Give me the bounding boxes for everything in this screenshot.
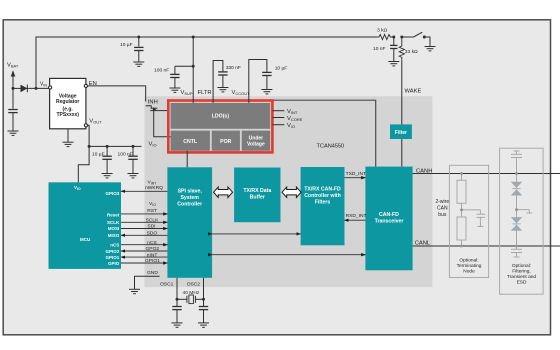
svg-text:10 µF: 10 µF [92, 152, 105, 158]
svg-text:MISO: MISO [108, 233, 120, 238]
svg-text:Buffer: Buffer [250, 195, 265, 201]
svg-text:2-wire: 2-wire [435, 199, 449, 205]
svg-text:CAN: CAN [437, 206, 448, 212]
svg-text:VOUT: VOUT [89, 119, 102, 125]
svg-text:WAKE: WAKE [405, 89, 422, 95]
svg-text:Terminating: Terminating [457, 263, 482, 269]
svg-text:bus: bus [438, 212, 447, 218]
svg-text:SPI slave,: SPI slave, [178, 188, 203, 194]
svg-text:GPIO2: GPIO2 [106, 249, 120, 254]
svg-text:TCAN4550: TCAN4550 [317, 144, 345, 150]
svg-text:FLTR: FLTR [198, 90, 212, 96]
svg-text:Controller with: Controller with [304, 193, 341, 199]
svg-text:GPIO1: GPIO1 [106, 255, 120, 260]
svg-text:CAN-FD: CAN-FD [379, 212, 399, 218]
svg-text:VCCOUT: VCCOUT [232, 90, 251, 96]
svg-text:RST: RST [147, 208, 157, 214]
svg-text:3 kΩ: 3 kΩ [377, 28, 388, 34]
svg-text:CNTL: CNTL [183, 139, 198, 145]
svg-text:10 µF: 10 µF [120, 42, 133, 48]
svg-text:MOSI: MOSI [108, 226, 120, 231]
svg-text:10 µF: 10 µF [275, 66, 288, 72]
svg-text:VSUP: VSUP [181, 90, 193, 96]
svg-text:GPIO3: GPIO3 [106, 191, 120, 196]
svg-text:TX/RX Data: TX/RX Data [243, 188, 271, 194]
svg-text:ESD: ESD [517, 280, 527, 286]
svg-text:SCLK: SCLK [107, 220, 120, 225]
svg-text:Regulator: Regulator [56, 99, 79, 105]
svg-text:10 nF: 10 nF [373, 46, 386, 52]
svg-text:VBAT: VBAT [7, 63, 19, 69]
svg-text:100 nF: 100 nF [154, 68, 169, 74]
svg-text:100 nF: 100 nF [118, 152, 133, 158]
svg-text:Optional:: Optional: [459, 258, 478, 264]
svg-text:Reset: Reset [107, 212, 120, 217]
svg-text:VIO: VIO [74, 185, 81, 191]
svg-text:Filters: Filters [315, 200, 331, 206]
svg-text:Node: Node [463, 269, 475, 275]
svg-text:Optional:: Optional: [512, 263, 531, 269]
svg-text:Transceiver: Transceiver [375, 218, 404, 224]
svg-text:Filter: Filter [395, 130, 407, 136]
svg-text:POR: POR [220, 139, 231, 145]
svg-text:nCS: nCS [110, 242, 119, 247]
svg-text:Filtering,: Filtering, [512, 269, 530, 275]
svg-text:OSC2: OSC2 [187, 281, 201, 287]
svg-text:VIO: VIO [287, 123, 295, 129]
svg-text:33 kΩ: 33 kΩ [405, 49, 418, 55]
svg-text:Transient and: Transient and [507, 274, 536, 280]
svg-text:MCU: MCU [80, 237, 90, 242]
svg-text:TPSxxxx): TPSxxxx) [56, 112, 79, 118]
svg-text:RXD_INT: RXD_INT [346, 213, 367, 219]
svg-text:GND: GND [147, 270, 158, 276]
svg-text:VCORE: VCORE [287, 116, 303, 122]
svg-text:LDO(s): LDO(s) [212, 114, 230, 120]
svg-text:System: System [180, 195, 199, 201]
svg-text:VIO: VIO [149, 141, 157, 147]
svg-text:Voltage: Voltage [247, 142, 265, 148]
svg-text:INH: INH [148, 100, 158, 106]
svg-text:Controller: Controller [177, 201, 202, 207]
svg-text:TX/RX CAN-FD: TX/RX CAN-FD [304, 187, 341, 193]
svg-text:330 nF: 330 nF [226, 65, 241, 71]
svg-text:VINT: VINT [287, 109, 298, 115]
svg-text:GPIO: GPIO [108, 261, 120, 266]
svg-text:OSC1: OSC1 [160, 281, 174, 287]
svg-text:TXD_INT: TXD_INT [346, 171, 366, 177]
svg-text:nWKRQ: nWKRQ [145, 185, 163, 191]
